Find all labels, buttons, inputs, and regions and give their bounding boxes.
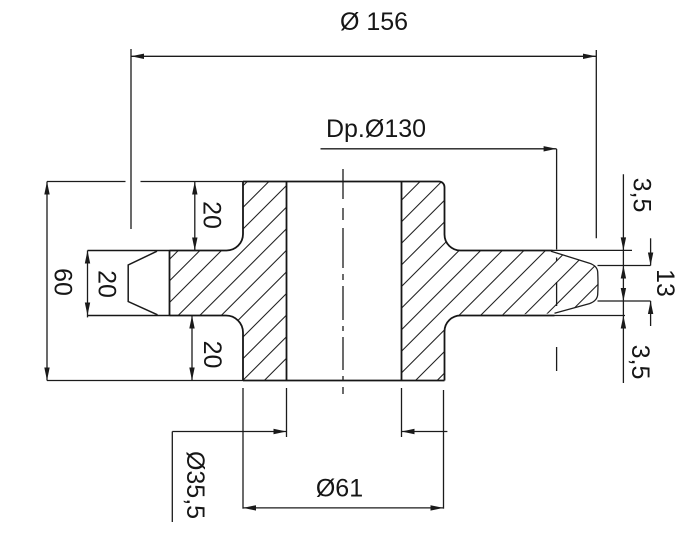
svg-text:3,5: 3,5: [628, 178, 656, 213]
svg-text:20: 20: [198, 341, 226, 369]
svg-text:13: 13: [651, 269, 679, 297]
svg-text:Ø61: Ø61: [316, 475, 363, 503]
svg-text:Ø 156: Ø 156: [340, 8, 408, 36]
svg-text:Ø35,5: Ø35,5: [181, 451, 209, 519]
svg-text:20: 20: [93, 270, 121, 298]
svg-text:20: 20: [198, 201, 226, 229]
svg-text:3,5: 3,5: [626, 345, 654, 380]
svg-text:60: 60: [49, 268, 77, 296]
svg-text:Dp.Ø130: Dp.Ø130: [326, 115, 426, 143]
